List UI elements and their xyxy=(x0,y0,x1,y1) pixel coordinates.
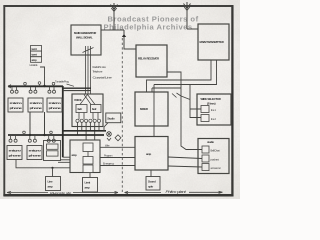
mic pair 1b xyxy=(29,87,37,93)
receiver out wire xyxy=(167,72,202,150)
studio box R2b xyxy=(27,146,42,160)
diamond on dashed line xyxy=(115,135,121,141)
control inner sq3 xyxy=(83,165,93,173)
second feeder line xyxy=(63,90,91,92)
plug symbol xyxy=(107,132,112,141)
studio box R2c cell2 xyxy=(47,151,59,156)
wire amp to monitor sq3 xyxy=(168,166,202,167)
through line mixer to amp xyxy=(153,85,155,137)
wire antenna A2 to transmitter xyxy=(187,28,198,30)
junction dot bus1 xyxy=(43,85,45,87)
mic pair 2a xyxy=(9,136,17,142)
bottom span annotation xyxy=(7,191,223,193)
wire amp to speaker xyxy=(150,170,152,177)
studio line box xyxy=(106,113,121,123)
thick feeder above console xyxy=(63,87,91,89)
antenna A2 xyxy=(184,2,191,29)
arrowhead on wire xyxy=(122,34,126,37)
monitor sq2 xyxy=(202,155,209,162)
wire down to relay receiver xyxy=(124,30,136,49)
bus1 jack bump 3 xyxy=(52,82,55,86)
wire control to limiter xyxy=(89,173,91,178)
line under console xyxy=(63,130,106,132)
bus1 jack bump 2 xyxy=(38,82,41,87)
bus2 jack bump 1 xyxy=(23,131,26,135)
dashed boundary line xyxy=(121,38,123,192)
line amp box xyxy=(46,177,61,191)
console fader 2 xyxy=(91,105,102,113)
studio box R1b xyxy=(28,98,43,112)
STL line 1 xyxy=(85,46,87,94)
wire studio box to plug xyxy=(104,123,108,131)
selector feed wires xyxy=(181,85,201,118)
console drops xyxy=(78,123,100,141)
studio box R2a xyxy=(7,146,22,160)
relay transmitter box U1 xyxy=(71,25,101,55)
console fader 1 xyxy=(76,105,87,113)
STL line 3 xyxy=(90,46,92,94)
telco line 3 xyxy=(100,165,135,167)
control inner sq2 xyxy=(83,157,93,165)
control inner sq1 xyxy=(83,143,93,152)
studio box R2c outer xyxy=(44,141,61,161)
telco line 2 xyxy=(100,157,135,159)
mixer box U4 xyxy=(135,92,168,126)
mic pair 2c xyxy=(47,136,55,142)
console jacks xyxy=(76,119,101,122)
riser bus1 to bus2 xyxy=(62,86,64,157)
console box xyxy=(72,94,103,127)
arrow marks xyxy=(172,93,181,98)
bus2 jack bump 2 xyxy=(50,131,53,135)
studio box R1c xyxy=(47,98,62,112)
monitor sq1 xyxy=(202,146,209,153)
transmitter feed 2 xyxy=(154,60,217,85)
mic pair 2b xyxy=(28,136,36,142)
drop lines row1 to bus2 xyxy=(29,112,31,135)
monitor sq3 xyxy=(202,164,209,171)
wire generator to antenna A1 xyxy=(101,29,124,31)
bus1 xyxy=(8,85,63,87)
mic pair 1c xyxy=(48,87,56,93)
turntable stack boxes xyxy=(31,46,42,63)
selector sq1 xyxy=(201,106,209,113)
studio box R2c cell1 xyxy=(47,144,59,149)
selector sq2 xyxy=(201,115,209,122)
plant amp box U6 xyxy=(135,137,168,171)
console cross wires xyxy=(80,95,95,105)
relay receiver box U2 xyxy=(136,45,167,77)
leader line to bus1 xyxy=(67,84,75,86)
monitor box U7 xyxy=(198,139,229,174)
wire stack to bus1 xyxy=(40,67,45,86)
wire sq1 to sq2 xyxy=(87,152,89,157)
telco line 1 xyxy=(100,146,135,148)
fader output wires xyxy=(79,113,98,120)
studio box R1a xyxy=(8,98,23,112)
control box xyxy=(70,140,100,173)
mic pair 1a xyxy=(11,87,19,93)
wire amp to monitor sq2 xyxy=(168,157,202,159)
border frame xyxy=(3,5,233,7)
photo area xyxy=(0,0,240,199)
cable slash inside U1 xyxy=(83,48,94,53)
speaker box xyxy=(146,177,160,191)
bus2 xyxy=(8,134,104,136)
wires R2c to control box xyxy=(58,157,70,162)
limiter box xyxy=(83,178,98,193)
wire R2a to line amp xyxy=(16,160,70,168)
STL line 2 xyxy=(87,46,89,94)
main transmitter box U3 xyxy=(198,24,229,60)
mixer top stub xyxy=(152,88,181,92)
antenna A1 xyxy=(111,3,118,30)
wire selector box U5 xyxy=(197,94,231,125)
bus1 jack bump 1 xyxy=(24,82,27,86)
transmitter feed 1 xyxy=(147,60,212,92)
